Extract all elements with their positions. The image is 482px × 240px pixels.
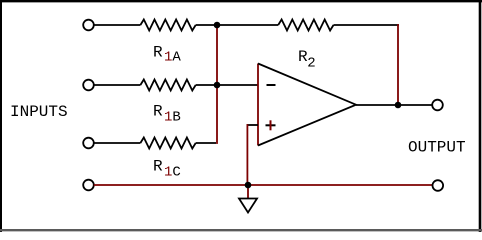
svg-text:C: C	[172, 165, 180, 181]
resistor R1C	[140, 138, 195, 149]
label R1C	[153, 157, 181, 180]
wire R1C to summing bus	[196, 142, 216, 144]
output terminal	[432, 100, 443, 111]
label R1A	[153, 43, 181, 65]
input terminal 2	[83, 80, 94, 91]
svg-text:R: R	[153, 157, 163, 175]
wire ground rail	[94, 184, 433, 186]
ground terminal left	[83, 180, 94, 191]
wire input2 to R1B	[94, 84, 141, 86]
svg-text:1: 1	[164, 49, 172, 65]
svg-text:R: R	[153, 102, 163, 120]
svg-text:OUTPUT: OUTPUT	[408, 138, 466, 156]
ground terminal right	[433, 180, 444, 191]
wire R2 to feedback corner	[334, 24, 399, 26]
svg-text:B: B	[172, 110, 180, 126]
wire input1 to R1A	[94, 24, 141, 26]
resistor R1B	[140, 80, 195, 91]
label R1B	[153, 102, 181, 125]
svg-text:2: 2	[307, 55, 315, 71]
label R2	[298, 48, 316, 71]
svg-text:INPUTS: INPUTS	[10, 103, 68, 121]
wire output node to terminal	[398, 104, 432, 106]
minus sign inverting input	[267, 84, 276, 86]
junction dot row1	[214, 22, 221, 29]
junction dot ground rail	[245, 182, 252, 189]
plus sign non-inverting input	[266, 120, 276, 130]
wire non-inverting input stub	[247, 124, 259, 126]
wire non-inverting input to ground rail	[246, 124, 248, 185]
resistor R1A	[140, 20, 195, 31]
input terminal 3	[83, 138, 94, 149]
junction dot row2	[214, 82, 221, 89]
junction dot output node	[395, 102, 402, 109]
summing bus vertical wire	[216, 24, 218, 144]
wire input3 to R1C	[94, 142, 141, 144]
svg-text:1: 1	[164, 165, 172, 181]
svg-text:1: 1	[164, 110, 172, 126]
resistor R2	[278, 20, 333, 31]
wire R1A to summing node	[196, 24, 279, 26]
input terminal 1	[83, 20, 94, 31]
svg-text:A: A	[172, 49, 181, 65]
svg-text:R: R	[153, 43, 163, 61]
wire junction to ground symbol	[247, 185, 249, 198]
ground	[239, 199, 257, 213]
wire R1B to inverting input	[196, 84, 258, 86]
wire feedback vertical	[397, 24, 399, 105]
op-amp U1	[258, 64, 356, 146]
wire op-amp output	[356, 104, 398, 106]
